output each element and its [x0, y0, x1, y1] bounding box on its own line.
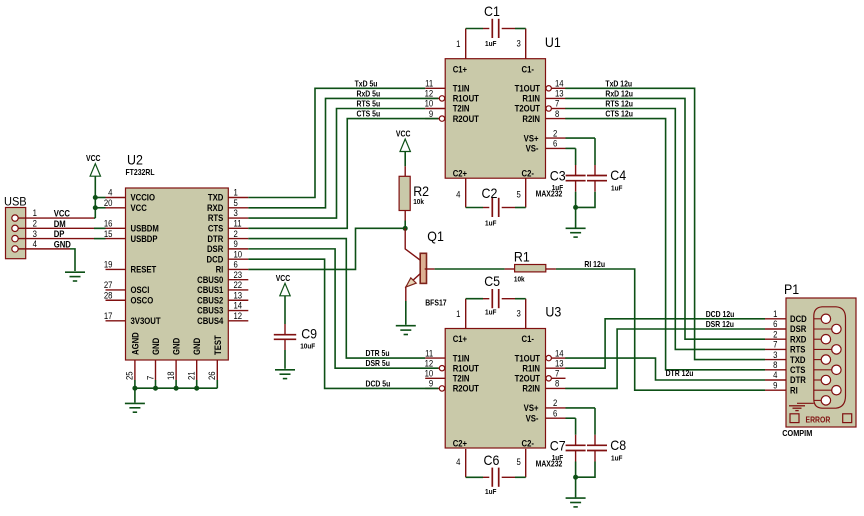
- svg-text:DCD 12u: DCD 12u: [706, 309, 735, 319]
- svg-text:R1IN: R1IN: [522, 363, 540, 374]
- svg-text:4: 4: [33, 238, 38, 249]
- svg-text:12: 12: [233, 310, 242, 321]
- svg-text:DSR 12u: DSR 12u: [706, 319, 735, 329]
- svg-text:10uF: 10uF: [300, 343, 316, 351]
- svg-text:C2-: C2-: [522, 438, 535, 449]
- svg-text:1uF: 1uF: [552, 455, 564, 463]
- svg-text:DSR: DSR: [790, 324, 806, 335]
- svg-text:OSCI: OSCI: [130, 285, 149, 296]
- svg-text:C3: C3: [550, 168, 566, 184]
- svg-text:27: 27: [104, 280, 113, 291]
- svg-text:1uF: 1uF: [485, 309, 497, 317]
- svg-text:RI: RI: [216, 264, 224, 275]
- svg-text:1: 1: [456, 38, 461, 49]
- svg-text:VCC: VCC: [54, 208, 70, 219]
- svg-text:R2IN: R2IN: [522, 383, 540, 394]
- svg-text:13: 13: [233, 290, 242, 301]
- svg-text:10k: 10k: [413, 198, 424, 206]
- svg-text:DCD: DCD: [790, 313, 807, 324]
- svg-text:R2OUT: R2OUT: [453, 113, 480, 124]
- svg-text:1uF: 1uF: [485, 220, 497, 228]
- svg-text:1uF: 1uF: [552, 185, 564, 193]
- svg-text:RTS 5u: RTS 5u: [356, 99, 380, 109]
- svg-text:R2: R2: [413, 184, 429, 200]
- svg-text:CBUS0: CBUS0: [197, 274, 223, 285]
- svg-text:OSCO: OSCO: [130, 295, 153, 306]
- svg-text:10: 10: [233, 249, 242, 260]
- svg-text:2: 2: [553, 128, 558, 139]
- svg-text:7: 7: [145, 375, 156, 380]
- svg-text:C7: C7: [550, 438, 566, 454]
- svg-text:22: 22: [233, 280, 242, 291]
- svg-text:RxD 5u: RxD 5u: [356, 89, 380, 99]
- svg-text:C9: C9: [301, 326, 317, 342]
- svg-text:U3: U3: [545, 304, 561, 320]
- svg-text:28: 28: [104, 290, 113, 301]
- svg-text:1: 1: [456, 308, 461, 319]
- svg-text:3V3OUT: 3V3OUT: [130, 315, 161, 326]
- svg-text:DTR: DTR: [207, 233, 223, 244]
- svg-text:R2OUT: R2OUT: [453, 383, 480, 394]
- svg-text:BFS17: BFS17: [425, 298, 446, 308]
- svg-text:RXD: RXD: [790, 334, 806, 345]
- svg-text:5: 5: [516, 189, 521, 200]
- svg-text:25: 25: [124, 371, 135, 380]
- svg-text:USBDM: USBDM: [130, 223, 158, 234]
- svg-text:1uF: 1uF: [611, 185, 623, 193]
- svg-text:GND: GND: [54, 239, 71, 250]
- svg-text:VCC: VCC: [276, 273, 291, 283]
- svg-text:RI 12u: RI 12u: [584, 259, 605, 269]
- svg-text:DCD: DCD: [207, 254, 224, 265]
- svg-text:11: 11: [233, 218, 241, 229]
- svg-text:8: 8: [555, 378, 560, 389]
- svg-text:TxD 12u: TxD 12u: [605, 79, 632, 89]
- svg-text:CBUS1: CBUS1: [197, 285, 223, 296]
- svg-text:DM: DM: [54, 218, 66, 229]
- svg-text:21: 21: [186, 371, 197, 380]
- svg-text:CTS: CTS: [790, 364, 806, 375]
- svg-text:R1: R1: [514, 249, 530, 265]
- svg-text:RXD: RXD: [207, 202, 223, 213]
- svg-text:DSR: DSR: [207, 243, 223, 254]
- svg-text:10k: 10k: [514, 276, 525, 284]
- svg-text:4: 4: [108, 187, 113, 198]
- svg-text:DP: DP: [54, 229, 65, 240]
- svg-text:5: 5: [516, 456, 521, 467]
- svg-text:1uF: 1uF: [485, 40, 497, 48]
- svg-text:2: 2: [233, 228, 238, 239]
- svg-text:8: 8: [773, 359, 778, 370]
- svg-text:C5: C5: [484, 273, 500, 289]
- svg-text:VS-: VS-: [526, 143, 539, 154]
- svg-text:ERROR: ERROR: [806, 415, 831, 425]
- svg-text:CBUS3: CBUS3: [197, 305, 223, 316]
- svg-text:9: 9: [429, 378, 434, 389]
- svg-text:3: 3: [233, 208, 238, 219]
- svg-text:3: 3: [33, 228, 38, 239]
- svg-text:P1: P1: [784, 282, 799, 298]
- svg-text:2: 2: [773, 329, 778, 340]
- svg-text:8: 8: [555, 108, 560, 119]
- svg-text:9: 9: [429, 108, 434, 119]
- svg-text:RESET: RESET: [130, 264, 157, 275]
- svg-text:3: 3: [773, 349, 778, 360]
- svg-text:14: 14: [233, 300, 242, 311]
- svg-text:C1-: C1-: [522, 64, 535, 75]
- svg-text:4: 4: [456, 456, 461, 467]
- svg-text:RxD 12u: RxD 12u: [605, 89, 633, 99]
- svg-text:USBDP: USBDP: [130, 233, 157, 244]
- svg-text:9: 9: [233, 238, 238, 249]
- svg-text:6: 6: [233, 259, 238, 270]
- svg-text:6: 6: [553, 138, 558, 149]
- svg-text:5: 5: [233, 197, 238, 208]
- svg-text:AGND: AGND: [130, 332, 141, 355]
- svg-text:3: 3: [516, 38, 521, 49]
- svg-text:1uF: 1uF: [611, 455, 623, 463]
- svg-text:19: 19: [104, 259, 113, 270]
- svg-text:12: 12: [425, 358, 434, 369]
- svg-text:VS+: VS+: [524, 403, 539, 414]
- svg-text:CTS: CTS: [208, 223, 224, 234]
- svg-text:TxD 5u: TxD 5u: [355, 79, 378, 89]
- svg-text:18: 18: [165, 371, 176, 380]
- svg-text:U2: U2: [127, 152, 143, 168]
- svg-text:GND: GND: [192, 338, 203, 355]
- svg-text:RTS: RTS: [790, 344, 806, 355]
- svg-text:U1: U1: [545, 35, 561, 51]
- svg-text:6: 6: [553, 408, 558, 419]
- svg-text:DTR 12u: DTR 12u: [666, 368, 694, 378]
- svg-text:13: 13: [555, 358, 564, 369]
- svg-text:DTR: DTR: [790, 375, 806, 386]
- svg-text:VCC: VCC: [130, 202, 146, 213]
- svg-text:VCC: VCC: [86, 154, 101, 164]
- svg-text:1: 1: [33, 208, 38, 219]
- svg-text:9: 9: [773, 380, 778, 391]
- svg-text:C1-: C1-: [522, 334, 535, 345]
- svg-text:17: 17: [104, 310, 113, 321]
- svg-text:C1: C1: [484, 4, 500, 20]
- svg-text:CBUS4: CBUS4: [197, 315, 223, 326]
- svg-text:C8: C8: [610, 438, 626, 454]
- svg-text:4: 4: [456, 189, 461, 200]
- svg-text:RI: RI: [790, 385, 798, 396]
- svg-text:GND: GND: [171, 338, 182, 355]
- svg-text:CTS 5u: CTS 5u: [356, 109, 380, 119]
- svg-text:TXD: TXD: [208, 192, 223, 203]
- svg-text:COMPIM: COMPIM: [782, 428, 812, 438]
- svg-text:23: 23: [233, 269, 242, 280]
- svg-text:C4: C4: [610, 168, 626, 184]
- svg-text:CBUS2: CBUS2: [197, 295, 223, 306]
- svg-text:3: 3: [516, 308, 521, 319]
- svg-text:VS-: VS-: [526, 413, 539, 424]
- svg-text:C1+: C1+: [453, 334, 467, 345]
- svg-text:VS+: VS+: [524, 133, 539, 144]
- svg-text:CTS 12u: CTS 12u: [605, 109, 633, 119]
- svg-text:C1+: C1+: [453, 64, 467, 75]
- svg-text:VCC: VCC: [396, 129, 411, 139]
- svg-text:C2+: C2+: [453, 438, 467, 449]
- svg-text:1uF: 1uF: [485, 488, 497, 496]
- svg-text:TEST: TEST: [212, 334, 223, 355]
- svg-text:DSR 5u: DSR 5u: [365, 359, 390, 369]
- svg-text:VCCIO: VCCIO: [130, 192, 155, 203]
- svg-text:C6: C6: [484, 453, 500, 469]
- svg-text:C2: C2: [481, 185, 497, 201]
- svg-text:C2+: C2+: [453, 168, 467, 179]
- svg-text:16: 16: [104, 218, 113, 229]
- svg-text:26: 26: [207, 371, 218, 380]
- svg-text:RTS 12u: RTS 12u: [605, 99, 633, 109]
- svg-text:GND: GND: [150, 338, 161, 355]
- svg-text:1: 1: [233, 187, 238, 198]
- svg-text:R2IN: R2IN: [522, 113, 540, 124]
- svg-text:DTR 5u: DTR 5u: [365, 349, 389, 359]
- svg-text:C2-: C2-: [522, 168, 535, 179]
- svg-text:7: 7: [773, 339, 778, 350]
- svg-text:1: 1: [773, 308, 778, 319]
- svg-text:4: 4: [773, 370, 778, 381]
- svg-text:20: 20: [104, 197, 113, 208]
- svg-text:USB: USB: [4, 196, 27, 208]
- svg-text:R1OUT: R1OUT: [453, 363, 480, 374]
- svg-text:2: 2: [553, 398, 558, 409]
- svg-text:6: 6: [773, 319, 778, 330]
- svg-text:TXD: TXD: [790, 354, 805, 365]
- svg-text:15: 15: [104, 228, 113, 239]
- svg-text:FT232RL: FT232RL: [126, 167, 155, 177]
- svg-text:DCD 5u: DCD 5u: [365, 379, 390, 389]
- svg-text:RTS: RTS: [208, 213, 224, 224]
- svg-text:Q1: Q1: [427, 229, 444, 245]
- svg-text:2: 2: [33, 218, 38, 229]
